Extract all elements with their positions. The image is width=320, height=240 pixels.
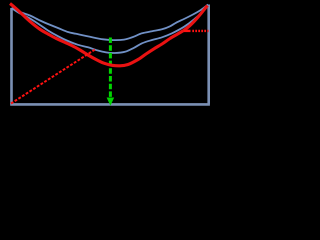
axes frame: left border	[10, 8, 13, 104]
red dashed diagonal line	[11, 50, 95, 104]
axes frame: bottom border	[10, 103, 210, 106]
green dashed vertical marker line	[109, 38, 112, 98]
axes frame: right border	[207, 5, 210, 105]
green arrowhead (down)	[107, 98, 115, 106]
blue curve B (lower deeper U)	[12, 5, 209, 54]
blue curve A (upper shallow U)	[12, 5, 209, 41]
red dotted horizontal line: leading dash	[184, 30, 191, 32]
red dotted horizontal line: dots	[192, 30, 208, 32]
red bathtub curve (thick)	[10, 4, 208, 66]
